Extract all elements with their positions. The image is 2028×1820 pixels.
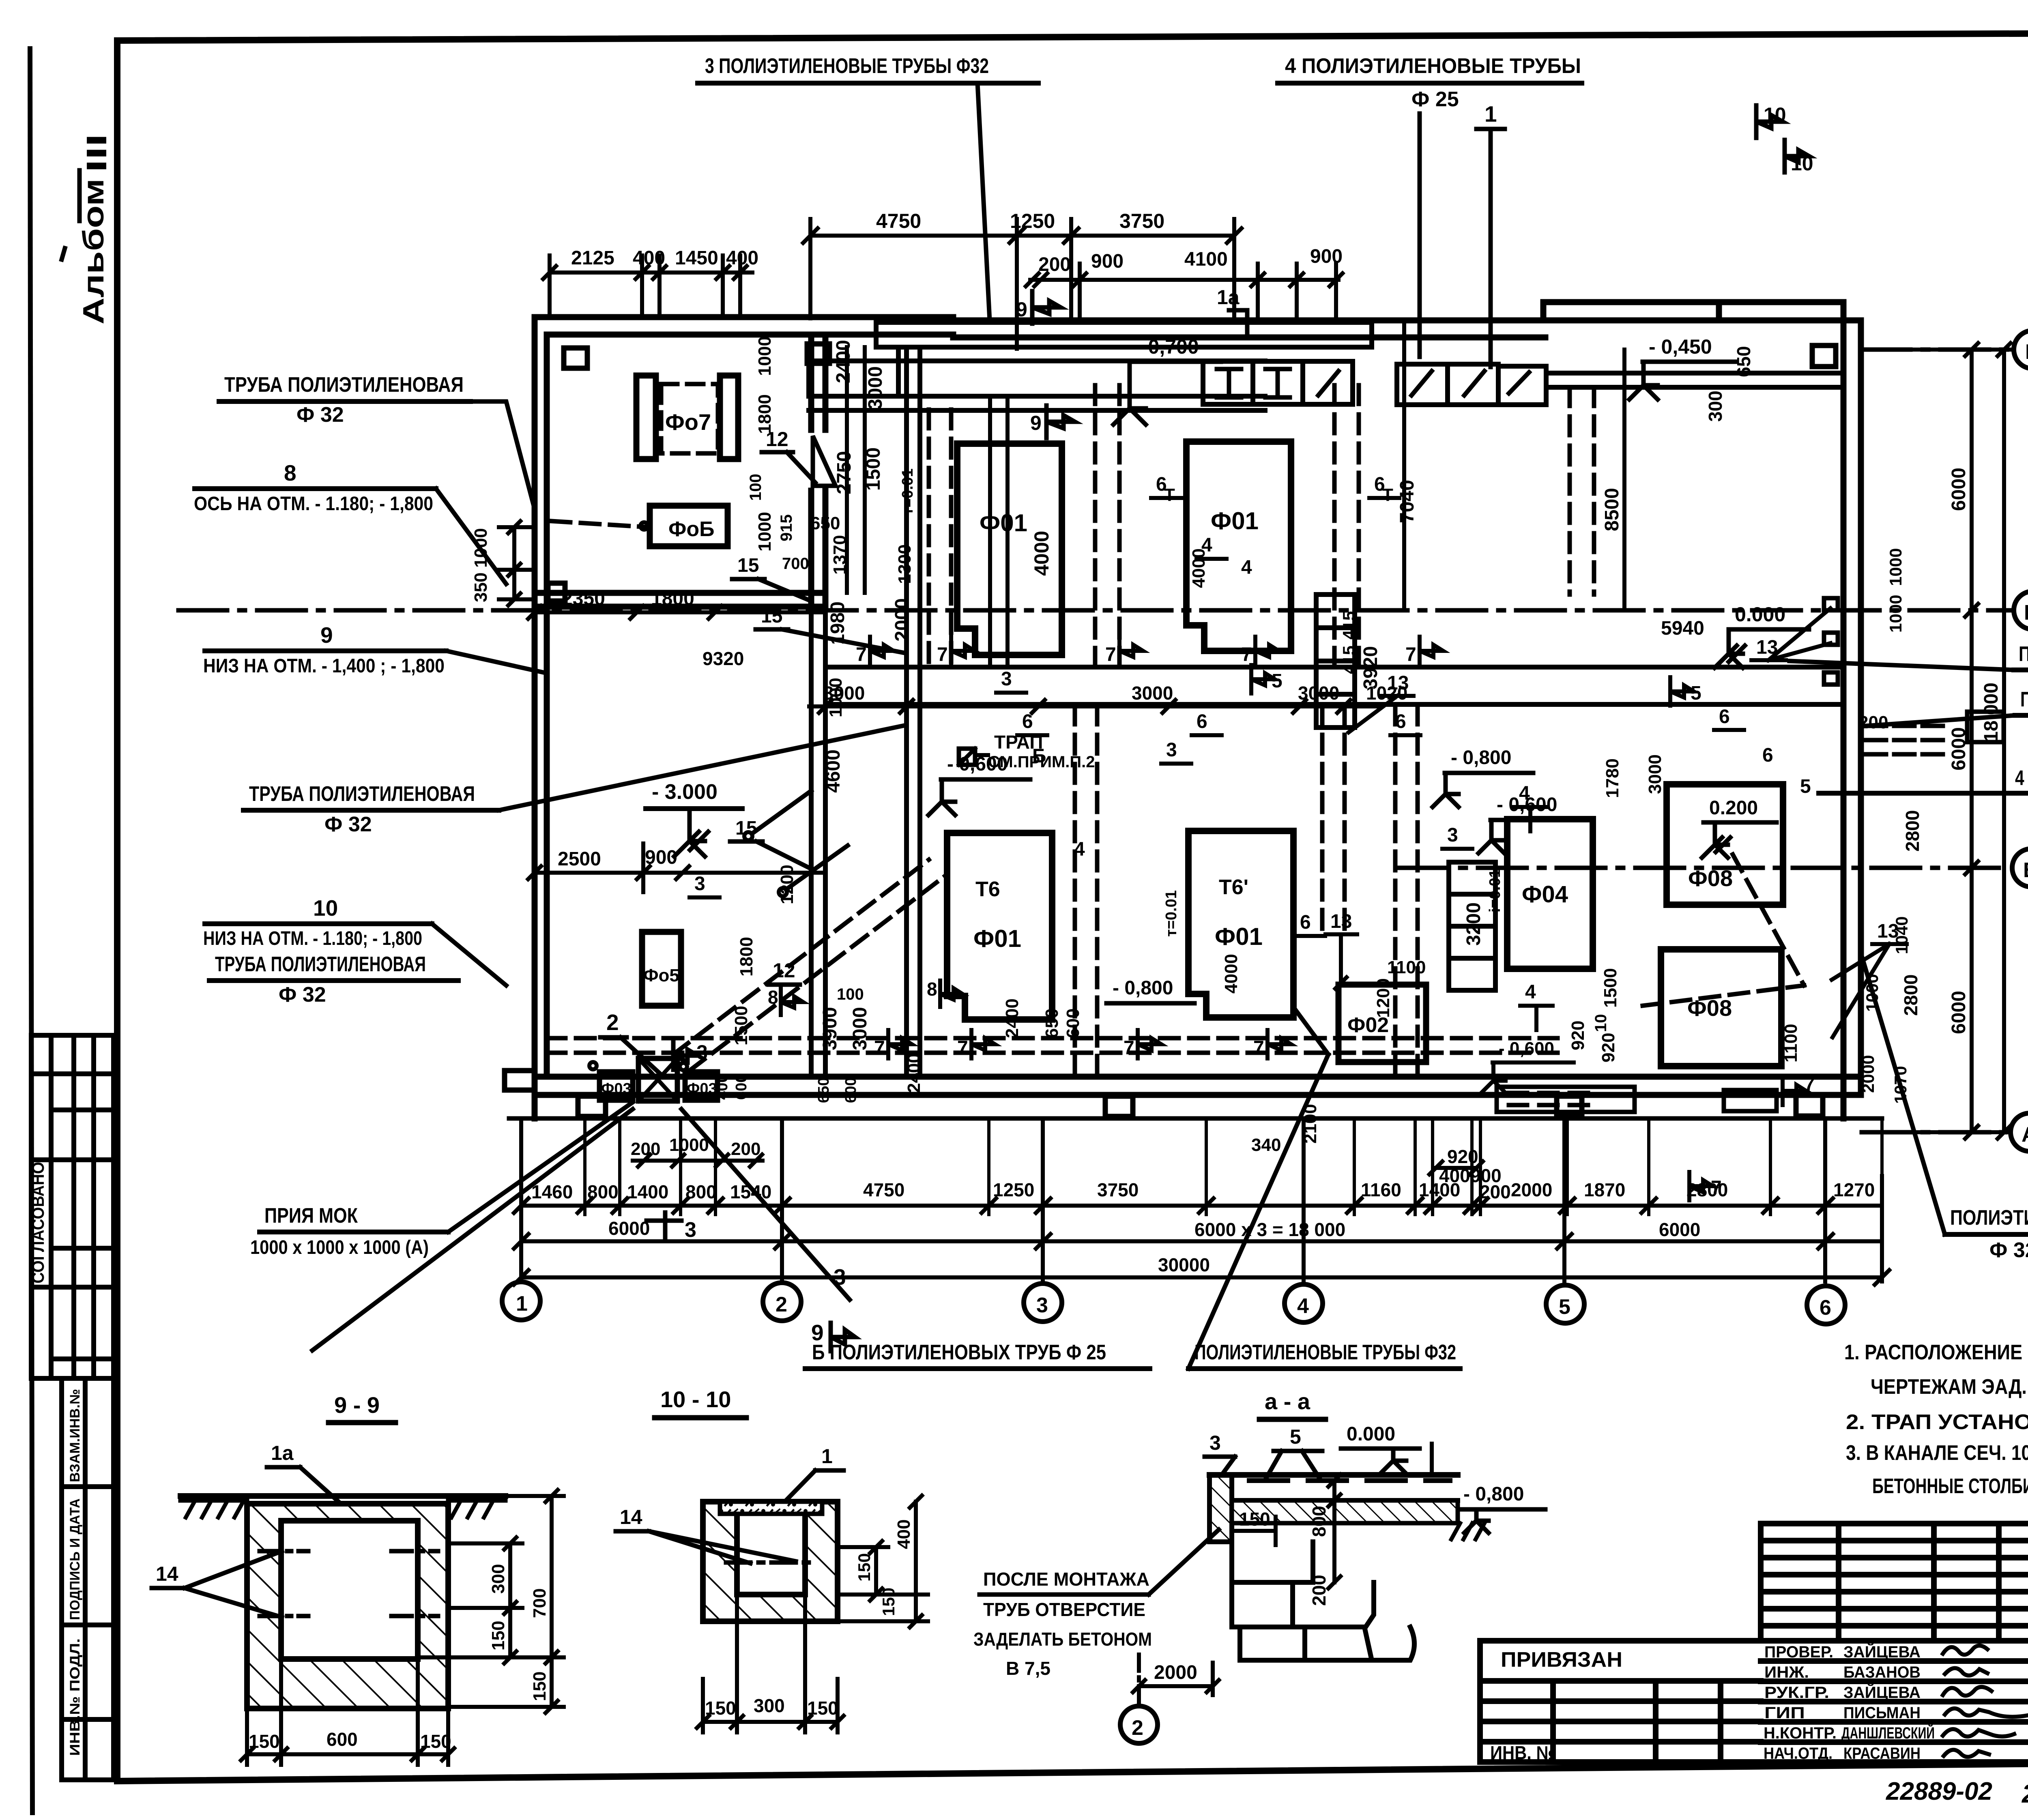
svg-text:2000: 2000 (1511, 1179, 1552, 1200)
svg-text:2: 2 (1132, 1716, 1143, 1740)
svg-text:15: 15 (737, 555, 759, 576)
interior verticals top (847, 347, 1008, 667)
equipment F04 (1507, 819, 1593, 969)
svg-text:900: 900 (1310, 246, 1343, 267)
dim 2500 900 row (528, 843, 825, 892)
svg-text:2: 2 (776, 1293, 787, 1316)
svg-text:1000: 1000 (1886, 548, 1905, 586)
sheet edge line left (30, 49, 32, 1813)
svg-text:1. РАСПОЛОЖЕНИЕ ПОЛИЭТИЛЕНОВЫ: 1. РАСПОЛОЖЕНИЕ ПОЛИЭТИЛЕНОВЫХ ТРУБ УТОЧ… (1844, 1341, 2028, 1364)
svg-text:Г: Г (2025, 340, 2028, 364)
svg-text:Ф 32: Ф 32 (324, 813, 372, 836)
svg-text:III: III (81, 134, 112, 172)
svg-text:150: 150 (879, 1588, 898, 1616)
pipe bundle right wall (1824, 598, 2004, 754)
svg-text:т=0.01: т=0.01 (1163, 890, 1180, 937)
svg-text:800: 800 (587, 1181, 619, 1202)
svg-text:400: 400 (894, 1520, 914, 1549)
svg-text:ПИСЬМАН: ПИСЬМАН (1843, 1704, 1921, 1722)
rebar marks (726, 1560, 815, 1565)
svg-text:4: 4 (1525, 981, 1536, 1003)
svg-text:4 ПОЛИЭТИЛЕНОВЫЕ ТРУБЫФ32: 4 ПОЛИЭТИЛЕНОВЫЕ ТРУБЫФ32 (2015, 766, 2028, 790)
svg-text:Ф03: Ф03 (601, 1080, 632, 1097)
svg-text:ЗАЙЦЕВА: ЗАЙЦЕВА (1843, 1683, 1921, 1702)
svg-text:100: 100 (837, 985, 864, 1003)
svg-text:7: 7 (1105, 644, 1116, 665)
svg-text:ЧЕРТЕЖАМ ЭАД.: ЧЕРТЕЖАМ ЭАД. (1871, 1375, 2027, 1399)
svg-text:Б: Б (2023, 858, 2028, 882)
svg-text:а - а: а - а (1265, 1389, 1310, 1414)
svg-text:650: 650 (1042, 1009, 1062, 1038)
svg-text:1: 1 (821, 1445, 833, 1468)
svg-text:3900: 3900 (819, 1007, 841, 1050)
slab (1209, 1472, 1458, 1478)
svg-text:ПРОВЕР.: ПРОВЕР. (1764, 1643, 1833, 1661)
svg-text:Ф08: Ф08 (1687, 995, 1732, 1021)
south wall (535, 1074, 1861, 1080)
svg-text:1000: 1000 (471, 528, 491, 568)
svg-text:340: 340 (1251, 1135, 1281, 1155)
svg-text:2: 2 (606, 1010, 619, 1035)
svg-text:150: 150 (855, 1553, 874, 1582)
svg-text:Фо5: Фо5 (643, 966, 679, 985)
svg-text:2000: 2000 (1154, 1662, 1197, 1683)
svg-text:3000: 3000 (865, 366, 886, 410)
svg-text:7: 7 (874, 1037, 885, 1059)
svg-text:6: 6 (1300, 912, 1311, 933)
svg-text:2000: 2000 (1858, 1055, 1878, 1093)
svg-text:8: 8 (768, 987, 778, 1008)
svg-text:2800: 2800 (1900, 974, 1921, 1016)
svg-text:3: 3 (694, 873, 705, 895)
svg-text:Б ПОЛИЭТИЛЕНОВЫХ ТРУБ Ф 25: Б ПОЛИЭТИЛЕНОВЫХ ТРУБ Ф 25 (812, 1341, 1106, 1364)
axis bubble 5 (1546, 1285, 1584, 1323)
svg-text:1400: 1400 (627, 1181, 668, 1202)
svg-text:ИНВ.№ ПОДЛ.: ИНВ.№ ПОДЛ. (67, 1638, 83, 1756)
svg-text:1500: 1500 (731, 1006, 751, 1045)
svg-text:2500: 2500 (558, 848, 601, 870)
svg-text:А: А (2022, 1123, 2028, 1146)
svg-text:700: 700 (530, 1588, 550, 1618)
svg-text:4: 4 (1297, 1294, 1309, 1318)
svg-text:4100: 4100 (1184, 249, 1228, 270)
svg-text:Н.КОНТР.: Н.КОНТР. (1764, 1724, 1837, 1742)
svg-text:1200: 1200 (1373, 978, 1393, 1018)
svg-text:920: 920 (1447, 1146, 1478, 1167)
svg-text:200: 200 (1480, 1181, 1511, 1202)
svg-text:2125: 2125 (571, 247, 614, 269)
svg-text:150: 150 (1239, 1509, 1270, 1530)
svg-text:1460: 1460 (531, 1181, 573, 1202)
svg-text:- 0,450: - 0,450 (1649, 335, 1712, 358)
svg-text:- 3.000: - 3.000 (652, 780, 718, 804)
svg-text:12: 12 (773, 959, 795, 982)
svg-text:1800: 1800 (651, 588, 694, 610)
svg-text:3: 3 (1447, 824, 1458, 846)
svg-text:2. ТРАП УСТАНОВИТЬ по черте: 2. ТРАП УСТАНОВИТЬ по чертежам КГ. (1846, 1410, 2028, 1434)
left wall (532, 317, 538, 1118)
svg-text:1450: 1450 (675, 247, 718, 269)
svg-text:22889-02: 22889-02 (1886, 1777, 1992, 1805)
svg-text:т=0.01: т=0.01 (899, 468, 916, 515)
svg-text:300: 300 (754, 1695, 785, 1716)
svg-text:350: 350 (471, 573, 491, 602)
svg-text:12: 12 (766, 428, 788, 451)
axis bubble G (2014, 331, 2028, 369)
svg-text:600: 600 (733, 1074, 750, 1100)
svg-text:6: 6 (1719, 706, 1730, 728)
svg-text:ТРУБА ПОЛИЭТИЛЕНОВАЯ: ТРУБА ПОЛИЭТИЛЕНОВАЯ (224, 373, 464, 397)
right vertical dims (1898, 343, 2011, 1139)
svg-text:Т: Т (1382, 485, 1393, 505)
title block (1480, 1524, 2028, 1762)
svg-text:4 ПОЛИЭТИЛЕНОВЫЕ ТРУБЫ: 4 ПОЛИЭТИЛЕНОВЫЕ ТРУБЫ (1285, 54, 1581, 78)
I beam glyphs (1217, 369, 1529, 397)
corner wall hatched (1209, 1475, 1232, 1542)
svg-text:2800: 2800 (1902, 810, 1923, 852)
svg-text:ОСЬ НА ОТМ. - 1.180; - 1,800: ОСЬ НА ОТМ. - 1.180; - 1,800 (194, 493, 433, 515)
svg-text:200: 200 (1038, 254, 1071, 275)
svg-text:3: 3 (685, 1218, 696, 1242)
svg-text:Ф03: Ф03 (687, 1080, 717, 1097)
svg-text:3000: 3000 (1645, 754, 1665, 794)
axis bubble A (2011, 1113, 2028, 1151)
svg-text:30000: 30000 (1158, 1254, 1210, 1275)
axis bubble 4 (1285, 1284, 1323, 1322)
svg-text:14: 14 (620, 1506, 642, 1528)
svg-text:920: 920 (1568, 1021, 1588, 1050)
svg-text:3: 3 (1001, 668, 1012, 690)
svg-text:300: 300 (488, 1564, 508, 1594)
svg-text:СОГЛАСОВАНО: СОГЛАСОВАНО (28, 1162, 47, 1283)
album label rotated (62, 134, 112, 324)
svg-text:400: 400 (714, 1074, 731, 1100)
svg-text:Альбом: Альбом (77, 178, 110, 324)
svg-text:1000: 1000 (669, 1135, 709, 1155)
svg-text:7: 7 (856, 644, 867, 665)
svg-text:1780: 1780 (1603, 758, 1622, 798)
svg-text:1: 1 (516, 1292, 528, 1316)
svg-text:4: 4 (1074, 839, 1085, 860)
axis row G (178, 350, 2011, 1132)
rebar dash-dot marks (260, 1551, 438, 1616)
svg-text:ТРУБ ОТВЕРСТИЕ: ТРУБ ОТВЕРСТИЕ (983, 1599, 1145, 1620)
svg-text:13: 13 (1330, 911, 1352, 932)
svg-text:1100: 1100 (1387, 957, 1426, 977)
svg-text:0.000: 0.000 (1735, 603, 1785, 626)
svg-text:6000 х 3 = 18 000: 6000 х 3 = 18 000 (1194, 1219, 1345, 1240)
svg-text:Ф 32: Ф 32 (279, 983, 326, 1007)
svg-text:650: 650 (1733, 346, 1754, 377)
misc: dashes along bottom wall right part (1497, 1087, 1777, 1112)
svg-text:9: 9 (320, 622, 333, 648)
svg-text:8500: 8500 (1601, 488, 1623, 531)
3000 dims corridor (809, 700, 1379, 713)
bottom dims 10-10 (697, 1596, 844, 1732)
parapet top right (1543, 299, 1843, 305)
svg-text:- 0,800: - 0,800 (1113, 977, 1173, 999)
axis bubble 1 (502, 1282, 540, 1320)
svg-text:- 0,700: - 0,700 (1136, 335, 1199, 358)
top slab concrete (256, 1504, 437, 1517)
svg-text:i=0.01: i=0.01 (1487, 869, 1504, 912)
equipment F01 bottom-left (947, 833, 1052, 1019)
svg-text:4: 4 (1241, 557, 1252, 578)
svg-text:6: 6 (1762, 745, 1773, 766)
ground hatch under slab (1232, 1500, 1458, 1523)
svg-text:ФоБ: ФоБ (668, 517, 715, 541)
svg-text:В: В (2024, 601, 2028, 625)
svg-text:7: 7 (1124, 1037, 1134, 1059)
svg-text:3000: 3000 (849, 1007, 871, 1050)
svg-text:5: 5 (1800, 776, 1811, 797)
door wedge 12 (813, 436, 836, 486)
bottom dims 9-9 (241, 1661, 454, 1765)
svg-text:3000: 3000 (823, 682, 865, 704)
svg-text:600: 600 (842, 1077, 859, 1103)
column base tabs (505, 344, 1836, 1116)
svg-text:1500: 1500 (1600, 968, 1620, 1008)
svg-text:ГИП: ГИП (1764, 1704, 1805, 1722)
right wall (1841, 302, 1847, 1118)
svg-text:Т: Т (1164, 485, 1175, 505)
notes text (1844, 1341, 2028, 1498)
svg-text:Ф01: Ф01 (973, 925, 1021, 952)
equipment F02 (1338, 985, 1426, 1062)
svg-text:650: 650 (810, 513, 840, 533)
box walls hatched (703, 1502, 838, 1621)
svg-text:3000: 3000 (1298, 682, 1339, 704)
svg-text:9 - 9: 9 - 9 (334, 1392, 380, 1418)
svg-text:415: 415 (1339, 611, 1358, 640)
svg-text:1270: 1270 (1833, 1179, 1875, 1200)
equipment F01 bottom-right (1188, 831, 1293, 1017)
svg-text:4750: 4750 (876, 210, 921, 232)
svg-text:2400: 2400 (1002, 998, 1022, 1038)
svg-text:4000: 4000 (1189, 548, 1209, 588)
svg-text:ПОЛИЭТИЛЕНОВАЯ ТРУБА Ф 32: ПОЛИЭТИЛЕНОВАЯ ТРУБА Ф 32 (2019, 642, 2028, 666)
dashed channels (547, 385, 1804, 1075)
svg-text:15: 15 (735, 818, 757, 839)
dim ticks row1 (514, 1198, 1889, 1285)
equipment F07 (636, 376, 738, 459)
svg-text:7: 7 (1253, 1037, 1264, 1059)
svg-text:7: 7 (1241, 644, 1252, 665)
dim row 2125/400/1450/400 (543, 255, 752, 317)
axis bubble 2 (763, 1283, 801, 1321)
axis row V (178, 608, 2011, 613)
svg-text:3: 3 (1209, 1432, 1221, 1454)
I-beam boxes row (1203, 361, 1253, 404)
svg-text:- 0,800: - 0,800 (1451, 747, 1511, 768)
left stamp table 1 (СОГЛАСОВАНО) (31, 1035, 114, 1378)
equipment F06 (650, 506, 728, 546)
equipment F03 + pit (599, 1072, 633, 1100)
equipment F01 top-right (1186, 442, 1291, 651)
svg-text:600: 600 (1063, 1009, 1083, 1038)
svg-text:9: 9 (1030, 412, 1042, 434)
pit leader lines (312, 1109, 633, 1350)
svg-text:2400: 2400 (904, 1053, 924, 1093)
svg-text:ПОЛИЭТИЛЕНОВАЯ ТРУБА Ф 50: ПОЛИЭТИЛЕНОВАЯ ТРУБА Ф 50 (2020, 688, 2028, 711)
svg-text:9320: 9320 (702, 648, 744, 669)
svg-text:БАЗАНОВ: БАЗАНОВ (1843, 1663, 1921, 1681)
svg-text:1300: 1300 (895, 544, 915, 584)
svg-text:3 ПОЛИЭТИЛЕНОВЫЕ ТРУБЫ Ф32: 3 ПОЛИЭТИЛЕНОВЫЕ ТРУБЫ Ф32 (705, 54, 989, 78)
svg-text:29: 29 (2022, 1779, 2028, 1808)
svg-text:700: 700 (782, 555, 809, 573)
trap mark (959, 749, 975, 765)
svg-text:1200: 1200 (777, 865, 797, 904)
north wall left part (535, 314, 953, 320)
svg-text:2750: 2750 (834, 451, 855, 494)
dim extension lines below plan (585, 1121, 1882, 1215)
svg-text:200: 200 (631, 1139, 660, 1159)
svg-text:6: 6 (1820, 1296, 1831, 1320)
svg-text:3750: 3750 (1119, 210, 1164, 232)
axis bubble 3 (1024, 1283, 1062, 1322)
svg-text:3750: 3750 (1097, 1179, 1139, 1200)
svg-text:200: 200 (1858, 713, 1888, 732)
svg-text:БЕТОННЫЕ СТОЛБИКИ 100х100хh: БЕТОННЫЕ СТОЛБИКИ 100х100хh (УТОЧНИТЬ ПР… (1872, 1474, 2028, 1498)
svg-text:8: 8 (927, 979, 937, 1000)
svg-text:1100: 1100 (1781, 1024, 1801, 1062)
svg-text:6: 6 (1197, 711, 1207, 732)
svg-text:400: 400 (633, 247, 665, 269)
svg-text:200: 200 (731, 1139, 760, 1159)
svg-text:15: 15 (761, 605, 782, 627)
signatures squiggles (1943, 1646, 2028, 1757)
right dims a-a (1328, 1444, 1432, 1588)
svg-text:150: 150 (249, 1731, 280, 1752)
svg-text:915: 915 (778, 514, 795, 541)
svg-text:200: 200 (1308, 1575, 1330, 1606)
svg-text:4000: 4000 (1221, 954, 1241, 994)
svg-text:5: 5 (1559, 1295, 1570, 1319)
small dims above pit area (631, 1135, 760, 1159)
svg-text:415: 415 (1339, 646, 1358, 674)
svg-text:920: 920 (1598, 1033, 1618, 1062)
svg-text:800: 800 (1308, 1506, 1330, 1537)
svg-text:6: 6 (1022, 711, 1033, 732)
svg-text:10: 10 (1592, 1014, 1610, 1032)
top trench 1 (809, 322, 1843, 410)
svg-text:7: 7 (957, 1037, 968, 1059)
svg-text:2100: 2100 (1300, 1104, 1320, 1144)
svg-text:3000: 3000 (1132, 682, 1173, 704)
svg-text:150: 150 (488, 1621, 508, 1650)
svg-text:Ф01: Ф01 (1211, 507, 1259, 534)
svg-text:150: 150 (530, 1672, 550, 1701)
svg-text:3: 3 (1166, 739, 1177, 761)
svg-text:ПОЛИЭТИЛЕНОВАЯ ТРУБА: ПОЛИЭТИЛЕНОВАЯ ТРУБА (1950, 1206, 2028, 1230)
svg-text:1160: 1160 (1361, 1179, 1401, 1200)
svg-text:9: 9 (1016, 298, 1027, 321)
equipment F08 bottom (1661, 949, 1781, 1066)
svg-text:3200: 3200 (1463, 902, 1484, 946)
svg-text:1000 х 1000 х 1000 (А): 1000 х 1000 х 1000 (А) (250, 1237, 429, 1258)
axis bubble V (2014, 591, 2028, 629)
right dims 9-9 (420, 1490, 564, 1713)
svg-text:7: 7 (1405, 644, 1416, 665)
vertical channel walls (809, 607, 814, 1077)
svg-text:13: 13 (1877, 921, 1899, 942)
trench band 2 (809, 358, 1265, 363)
svg-text:ЗАДЕЛАТЬ БЕТОНОМ: ЗАДЕЛАТЬ БЕТОНОМ (973, 1629, 1152, 1650)
axis bubble 6 (1807, 1286, 1845, 1324)
svg-text:10 - 10: 10 - 10 (660, 1386, 731, 1412)
svg-text:4: 4 (1519, 783, 1530, 804)
svg-text:1870: 1870 (1584, 1179, 1625, 1200)
svg-text:300: 300 (1705, 391, 1726, 422)
svg-text:3: 3 (834, 1264, 846, 1290)
svg-text:ДАНШЛЕВСКИЙ: ДАНШЛЕВСКИЙ (1841, 1723, 1935, 1742)
svg-text:3: 3 (696, 1041, 708, 1064)
svg-text:900: 900 (1091, 251, 1124, 272)
svg-text:2400: 2400 (833, 340, 854, 383)
svg-text:ВЗАМ.ИНВ.№: ВЗАМ.ИНВ.№ (67, 1389, 83, 1482)
top-left room (808, 335, 814, 430)
svg-text:- 0,600: - 0,600 (1499, 1039, 1554, 1058)
svg-text:1070: 1070 (1891, 1066, 1910, 1104)
svg-text:5940: 5940 (1661, 618, 1704, 639)
svg-text:3. В КАНАЛЕ СЕЧ. 1000х800(h: 3. В КАНАЛЕ СЕЧ. 1000х800(h) ПОД ТРУБЫ В… (1846, 1441, 2028, 1465)
svg-text:ПРИВЯЗАН: ПРИВЯЗАН (1501, 1648, 1622, 1672)
svg-text:4750: 4750 (863, 1179, 904, 1200)
svg-text:1000: 1000 (1886, 595, 1905, 633)
svg-text:650: 650 (815, 1077, 832, 1103)
equipment F01 top-left (957, 444, 1062, 655)
svg-text:6000: 6000 (1948, 727, 1970, 770)
left stamp table 2 (ИНВ № etc) (62, 1378, 114, 1780)
svg-text:600: 600 (327, 1729, 358, 1750)
svg-text:7040: 7040 (1396, 480, 1418, 523)
svg-text:4600: 4600 (823, 749, 844, 793)
svg-text:КРАСАВИН: КРАСАВИН (1843, 1745, 1921, 1762)
svg-text:1а: 1а (271, 1442, 294, 1464)
svg-text:Ф04: Ф04 (1522, 881, 1568, 908)
svg-text:800: 800 (685, 1181, 717, 1202)
svg-text:Ф 32: Ф 32 (296, 403, 344, 427)
dim 2350 1800 row (528, 606, 825, 619)
svg-text:Б: Б (1032, 745, 1046, 767)
svg-text:1250: 1250 (1010, 210, 1055, 232)
svg-text:3: 3 (1036, 1294, 1048, 1317)
svg-text:1000: 1000 (755, 336, 775, 376)
svg-text:1: 1 (1484, 101, 1497, 127)
svg-text:0.000: 0.000 (1347, 1423, 1395, 1445)
channel U walls hatched (247, 1504, 448, 1708)
dim row 200/900/4100/900 (1026, 264, 1343, 322)
svg-text:4000: 4000 (1030, 531, 1053, 576)
svg-text:ПРИЯ МОК: ПРИЯ МОК (264, 1204, 358, 1228)
svg-text:2000: 2000 (892, 598, 913, 642)
svg-text:0.200: 0.200 (1709, 797, 1758, 819)
svg-text:5: 5 (1290, 1425, 1301, 1448)
ground line (180, 1493, 505, 1499)
axis row B (1399, 866, 2004, 870)
svg-text:ЗАЙЦЕВА: ЗАЙЦЕВА (1843, 1642, 1921, 1661)
column axis extensions below plan (521, 1119, 1825, 1281)
svg-text:1800: 1800 (737, 937, 756, 977)
svg-text:- 0,800: - 0,800 (1463, 1483, 1524, 1505)
svg-text:3920: 3920 (1360, 646, 1381, 689)
svg-text:1250: 1250 (993, 1179, 1034, 1200)
svg-text:НИЗ НА ОТМ. - 1,400 ; - 1,800: НИЗ НА ОТМ. - 1,400 ; - 1,800 (203, 655, 445, 677)
svg-text:6000: 6000 (1948, 991, 1970, 1034)
svg-text:400: 400 (726, 247, 758, 269)
svg-text:10: 10 (313, 895, 338, 921)
